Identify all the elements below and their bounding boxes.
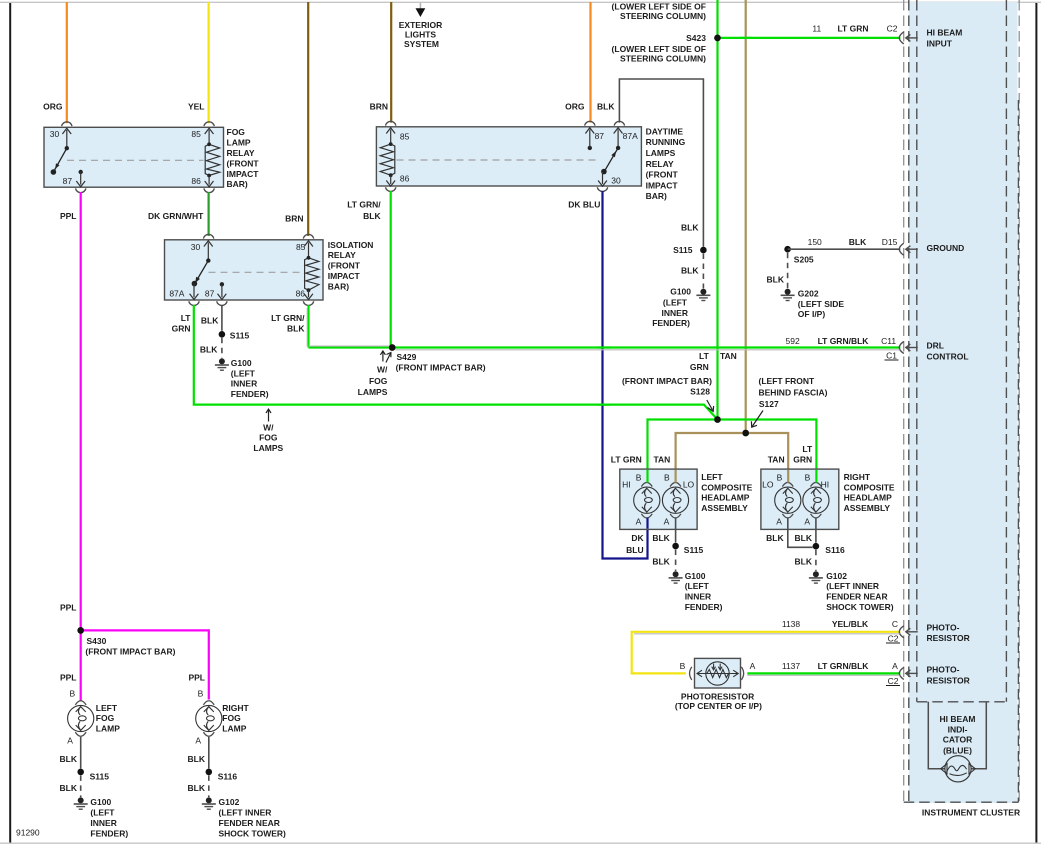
svg-text:1138: 1138 <box>782 619 801 629</box>
svg-text:GRN: GRN <box>690 362 709 372</box>
DRL relay connector arcs top <box>386 121 625 125</box>
splice S430 (front impact bar) <box>77 627 175 656</box>
svg-text:CATOR: CATOR <box>943 735 972 745</box>
wire BLK right fog lamp to S116 <box>188 737 209 769</box>
left fog lamp <box>67 689 120 746</box>
splice S429 (front impact bar) <box>389 344 486 372</box>
wire BLK dashed to G102 <box>188 775 209 797</box>
isolation relay pin 87A <box>169 284 198 300</box>
wire TAN from top to S127 <box>745 0 747 433</box>
svg-text:86: 86 <box>191 176 201 186</box>
svg-text:FOG: FOG <box>222 713 241 723</box>
connector C2 HI BEAM INPUT <box>899 27 962 48</box>
instrument cluster outer dashed border (dark) <box>904 0 1019 802</box>
svg-text:INNER: INNER <box>231 379 257 389</box>
svg-text:FOG: FOG <box>227 127 246 137</box>
svg-text:(LEFT: (LEFT <box>685 581 710 591</box>
svg-text:BLK: BLK <box>60 754 78 764</box>
ground G100 (left inner fender) <box>652 287 710 329</box>
svg-text:G100: G100 <box>231 358 252 368</box>
svg-text:A: A <box>892 661 898 671</box>
isolation relay pin 87 <box>205 282 226 299</box>
svg-text:B: B <box>680 661 686 671</box>
svg-text:B: B <box>70 689 76 699</box>
svg-text:(LEFT FRONT: (LEFT FRONT <box>759 376 816 386</box>
svg-text:B: B <box>777 473 783 483</box>
svg-text:S115: S115 <box>90 771 110 781</box>
svg-text:BAR): BAR) <box>328 281 349 291</box>
svg-text:BLK: BLK <box>681 223 699 233</box>
svg-text:LT: LT <box>802 444 813 454</box>
svg-text:RUNNING: RUNNING <box>646 137 686 147</box>
svg-text:FENDER): FENDER) <box>231 389 269 399</box>
splice S115 (fog lamp) <box>77 769 109 782</box>
instrument cluster outer dashed border (light) <box>904 0 1020 803</box>
wire BLK right headlamp HI A to S116 <box>795 518 816 543</box>
splice S430 dot <box>77 627 84 634</box>
svg-text:LT GRN: LT GRN <box>837 23 868 33</box>
svg-text:CONTROL: CONTROL <box>927 351 969 361</box>
svg-text:LAMPS: LAMPS <box>646 148 676 158</box>
DRL relay pin 87 <box>585 128 604 150</box>
svg-text:A: A <box>195 735 201 745</box>
svg-text:BLK: BLK <box>681 266 699 276</box>
arrow w/fog lamps (bottom green line) <box>253 409 283 453</box>
svg-text:HI: HI <box>622 480 631 490</box>
svg-text:C1: C1 <box>886 350 897 360</box>
svg-text:BAR): BAR) <box>646 191 667 201</box>
HI BEAM indicator leads <box>928 702 986 769</box>
svg-text:S429: S429 <box>397 352 417 362</box>
isolation relay pin 30 <box>191 241 213 261</box>
svg-text:A: A <box>804 516 810 526</box>
svg-text:S423: S423 <box>686 33 706 43</box>
splice S127 (left front behind fascia) <box>742 376 827 436</box>
splice S115 (left inner fender branch) <box>219 330 250 340</box>
svg-text:TAN: TAN <box>768 454 785 464</box>
splice S116 (headlamp) <box>813 543 845 555</box>
svg-text:RELAY: RELAY <box>227 148 255 158</box>
wire LT GRN from isolation relay 87A down and across to S128 <box>172 305 718 420</box>
left composite headlamp assembly box <box>620 469 697 529</box>
wire LT GRN/BLK horizontal to instrument cluster DRL CONTROL <box>309 336 901 361</box>
svg-text:IMPACT: IMPACT <box>646 180 679 190</box>
svg-text:PPL: PPL <box>60 603 77 613</box>
fog relay pin 87 <box>63 170 85 187</box>
splice S128 (front impact bar) <box>622 351 737 423</box>
svg-text:HI BEAM: HI BEAM <box>927 27 963 37</box>
DRL relay dashed armature line <box>397 159 600 161</box>
svg-text:BRN: BRN <box>370 102 388 112</box>
svg-text:DRL: DRL <box>927 340 944 350</box>
wire BLK right headlamp LO A to S116 <box>766 518 812 547</box>
svg-text:RIGHT: RIGHT <box>844 472 871 482</box>
connector D15 GROUND <box>899 243 964 255</box>
BLK stripe shadows on two-tone wires <box>307 308 899 675</box>
svg-text:S115: S115 <box>673 245 693 255</box>
DRL relay pin 85 and coil <box>380 128 409 177</box>
svg-text:30: 30 <box>191 242 201 252</box>
svg-text:YEL/BLK: YEL/BLK <box>832 619 869 629</box>
wire DK GRN/WHT from fog relay 86 to isolation relay 30 <box>148 192 209 236</box>
svg-text:S128: S128 <box>690 387 710 397</box>
connector C1 DRL CONTROL <box>899 340 968 361</box>
svg-text:85: 85 <box>191 129 201 139</box>
svg-text:INNER: INNER <box>662 308 688 318</box>
svg-text:FENDER): FENDER) <box>652 318 690 328</box>
isolation relay connector arcs bottom <box>189 301 314 305</box>
HI BEAM indicator lamp <box>941 756 976 782</box>
svg-text:592: 592 <box>786 336 800 346</box>
ground G100 (left inner fender) <box>669 571 723 612</box>
svg-text:BLK: BLK <box>363 211 381 221</box>
wire LT GRN from S423 down to S128 <box>716 0 718 420</box>
svg-text:S205: S205 <box>794 255 814 265</box>
svg-text:(FRONT: (FRONT <box>328 261 361 271</box>
fog relay dashed armature line <box>67 159 204 161</box>
svg-text:LT GRN/: LT GRN/ <box>271 313 305 323</box>
svg-text:BLK: BLK <box>200 345 218 355</box>
splice S429 dot <box>389 344 396 351</box>
svg-text:(TOP CENTER OF I/P): (TOP CENTER OF I/P) <box>675 701 762 711</box>
svg-text:BRN: BRN <box>285 214 303 224</box>
svg-text:(BLUE): (BLUE) <box>943 745 972 755</box>
svg-text:150: 150 <box>808 237 822 247</box>
svg-text:PHOTO-: PHOTO- <box>927 622 960 632</box>
svg-text:LT GRN/BLK: LT GRN/BLK <box>818 661 870 671</box>
svg-text:BLU: BLU <box>626 545 643 555</box>
wire BLK dashed to G100 <box>60 775 81 797</box>
svg-text:DK: DK <box>631 533 644 543</box>
svg-text:SYSTEM: SYSTEM <box>404 39 439 49</box>
fog relay pin 86 <box>191 176 213 187</box>
wire BLK dashed to G100 <box>681 254 703 289</box>
svg-text:LT GRN/BLK: LT GRN/BLK <box>818 336 870 346</box>
svg-text:INSTRUMENT CLUSTER: INSTRUMENT CLUSTER <box>922 808 1020 818</box>
svg-text:BLK: BLK <box>767 275 785 285</box>
splice S116 (fog lamp) <box>206 769 238 782</box>
svg-text:RELAY: RELAY <box>328 250 356 260</box>
svg-text:(LEFT INNER: (LEFT INNER <box>826 581 879 591</box>
svg-text:COMPOSITE: COMPOSITE <box>844 482 895 492</box>
splice S423 (lower left side of steering column) <box>612 2 721 64</box>
svg-text:COMPOSITE: COMPOSITE <box>701 482 752 492</box>
ground G100 (left inner fender) <box>74 797 129 838</box>
splice dot overlays <box>77 35 749 634</box>
svg-text:DAYTIME: DAYTIME <box>646 126 684 136</box>
svg-text:ASSEMBLY: ASSEMBLY <box>844 503 891 513</box>
svg-text:LIGHTS: LIGHTS <box>405 30 436 40</box>
svg-text:(LEFT: (LEFT <box>663 297 688 307</box>
svg-text:B: B <box>805 473 811 483</box>
wire PPL from fog relay 87 to S430 and left fog lamp <box>60 192 81 701</box>
fog relay pin 30 <box>50 128 71 148</box>
wire BLK left headlamp LO A to S115 <box>652 518 675 543</box>
svg-text:1137: 1137 <box>782 661 801 671</box>
fog relay switch <box>51 146 69 175</box>
splice S205 with ground line to cluster <box>784 237 900 264</box>
svg-text:RESISTOR: RESISTOR <box>927 675 970 685</box>
relay DAYTIME RUNNING LAMPS RELAY box <box>376 127 641 186</box>
splice S128 dot <box>714 416 721 423</box>
svg-text:IMPACT: IMPACT <box>328 271 361 281</box>
fog relay caption <box>227 127 260 189</box>
svg-text:SHOCK TOWER): SHOCK TOWER) <box>219 828 287 838</box>
wire YEL/BLK photoresistor to cluster <box>632 619 901 674</box>
svg-text:B: B <box>636 473 642 483</box>
svg-text:BAR): BAR) <box>227 179 248 189</box>
svg-text:G202: G202 <box>798 288 819 298</box>
svg-text:S116: S116 <box>825 545 845 555</box>
svg-text:87: 87 <box>595 131 605 141</box>
svg-text:HEADLAMP: HEADLAMP <box>844 493 892 503</box>
svg-text:LAMP: LAMP <box>96 724 120 734</box>
off-page arrow EXTERIOR LIGHTS SYSTEM <box>399 3 442 49</box>
right headlamp caption <box>844 472 895 513</box>
svg-text:(FRONT: (FRONT <box>646 170 679 180</box>
svg-text:ASSEMBLY: ASSEMBLY <box>701 503 748 513</box>
svg-text:BLK: BLK <box>201 315 219 325</box>
svg-text:BLK: BLK <box>60 783 78 793</box>
svg-text:A: A <box>636 516 642 526</box>
svg-text:FENDER): FENDER) <box>685 602 723 612</box>
svg-text:(LEFT INNER: (LEFT INNER <box>219 808 272 818</box>
wire BLK from DRL relay pin 87A up and over to S115 <box>597 79 703 247</box>
svg-text:ISOLATION: ISOLATION <box>328 240 374 250</box>
svg-text:SHOCK TOWER): SHOCK TOWER) <box>826 602 894 612</box>
wire LT GRN S128 to right headlamp HI B <box>718 420 817 483</box>
svg-text:FOG: FOG <box>259 433 278 443</box>
svg-text:A: A <box>750 661 756 671</box>
wire YEL to fog lamp relay pin 85 <box>188 2 209 123</box>
svg-text:LEFT: LEFT <box>701 472 723 482</box>
wire BRN to isolation relay pin 85 <box>285 2 308 236</box>
svg-text:FENDER): FENDER) <box>90 828 128 838</box>
svg-text:(LEFT SIDE: (LEFT SIDE <box>798 299 845 309</box>
wire LT GRN/BLK from isolation relay 86 down to DRL control line <box>271 305 308 348</box>
isolation relay dashed armature line <box>209 271 300 273</box>
wire TAN S127 to right headlamp LO B <box>746 433 789 483</box>
svg-text:HI BEAM: HI BEAM <box>940 714 976 724</box>
svg-text:FENDER NEAR: FENDER NEAR <box>219 818 280 828</box>
svg-text:INDI-: INDI- <box>948 724 968 734</box>
wire LT GRN/BLK from DRL relay 86 down to S429 <box>347 191 390 348</box>
svg-text:PHOTO-: PHOTO- <box>927 665 960 675</box>
svg-text:C: C <box>892 619 898 629</box>
isolation relay pin 85 and coil <box>296 241 319 292</box>
svg-text:YEL: YEL <box>188 102 205 112</box>
svg-text:TAN: TAN <box>653 454 670 464</box>
svg-text:HEADLAMP: HEADLAMP <box>701 493 749 503</box>
svg-text:G102: G102 <box>826 571 847 581</box>
ground G102 (left inner fender near shock tower) <box>202 797 286 838</box>
svg-text:A: A <box>776 516 782 526</box>
svg-text:BLK: BLK <box>652 533 670 543</box>
wire BLK dashed to ground <box>200 338 222 359</box>
svg-text:INNER: INNER <box>90 818 116 828</box>
svg-text:87A: 87A <box>623 131 638 141</box>
wire LT GRN S128 to left headlamp HI B <box>611 420 718 483</box>
svg-text:OF I/P): OF I/P) <box>798 309 826 319</box>
fog relay connector arcs bottom <box>76 188 215 192</box>
svg-text:S127: S127 <box>759 399 779 409</box>
svg-text:BLK: BLK <box>188 754 206 764</box>
wire TAN S127 to left headlamp LO B <box>653 433 745 483</box>
splice S115 (headlamp) <box>672 543 703 555</box>
wire BLK dashed to G102 <box>795 550 816 571</box>
svg-text:G100: G100 <box>670 287 691 297</box>
DRL relay pin 87A and switch <box>601 128 638 175</box>
svg-text:RIGHT: RIGHT <box>222 703 249 713</box>
svg-text:IMPACT: IMPACT <box>227 169 260 179</box>
svg-text:RELAY: RELAY <box>646 159 674 169</box>
right headlamp LO bulb <box>762 473 801 527</box>
svg-text:B: B <box>198 689 204 699</box>
svg-text:W/: W/ <box>377 365 388 375</box>
svg-text:BLK: BLK <box>652 557 670 567</box>
svg-text:B: B <box>664 473 670 483</box>
fog relay connector arcs top <box>62 122 215 126</box>
DRL relay pin 30 <box>598 172 621 187</box>
svg-text:LEFT: LEFT <box>96 703 118 713</box>
svg-text:87: 87 <box>205 288 215 298</box>
svg-text:LT GRN: LT GRN <box>611 454 642 464</box>
wire BLK from isolation relay 87 to S115 <box>201 305 222 331</box>
arrows w/fog lamps at S429 <box>358 351 391 397</box>
svg-text:INNER: INNER <box>685 592 711 602</box>
wire ORG to fog lamp relay pin 30 <box>43 2 67 123</box>
svg-text:ORG: ORG <box>565 102 585 112</box>
svg-text:87: 87 <box>63 176 73 186</box>
isolation relay switch <box>192 258 211 286</box>
svg-text:86: 86 <box>400 174 410 184</box>
svg-text:G102: G102 <box>219 797 240 807</box>
connector C2 PHOTO-RESISTOR (C) <box>899 622 969 643</box>
wire BRN to daytime running lamps relay pin 85 <box>370 2 392 123</box>
svg-text:DK BLU: DK BLU <box>568 200 600 210</box>
wire BLK dashed to G100 <box>652 550 675 572</box>
svg-text:S430: S430 <box>87 636 107 646</box>
svg-text:(LEFT: (LEFT <box>231 368 256 378</box>
svg-text:FOG: FOG <box>369 376 388 386</box>
svg-text:C2: C2 <box>887 23 898 33</box>
photoresistor component <box>675 658 762 711</box>
wire ORG to daytime running lamps relay pin 87 <box>565 2 590 123</box>
svg-text:S115: S115 <box>684 545 704 555</box>
svg-text:S115: S115 <box>230 330 250 340</box>
ground G202 (left side of I/P) <box>781 288 845 319</box>
svg-text:EXTERIOR: EXTERIOR <box>399 20 442 30</box>
svg-text:85: 85 <box>400 131 410 141</box>
svg-text:FENDER NEAR: FENDER NEAR <box>826 592 887 602</box>
svg-text:G100: G100 <box>90 797 111 807</box>
svg-text:(FRONT IMPACT BAR): (FRONT IMPACT BAR) <box>85 646 175 656</box>
svg-text:(FRONT: (FRONT <box>227 158 260 168</box>
svg-text:11: 11 <box>812 23 821 33</box>
svg-text:(FRONT IMPACT BAR): (FRONT IMPACT BAR) <box>622 376 712 386</box>
svg-text:LAMPS: LAMPS <box>358 387 388 397</box>
wire BLK dashed S205 to G202 <box>767 253 788 289</box>
svg-text:LO: LO <box>762 480 774 490</box>
wire PPL branch S430 to right fog lamp <box>81 630 209 699</box>
svg-text:BLK: BLK <box>597 102 615 112</box>
wire LT GRN/BLK photoresistor to cluster <box>747 661 900 686</box>
svg-text:GRN: GRN <box>172 323 191 333</box>
svg-text:GROUND: GROUND <box>927 243 965 253</box>
isolation relay caption <box>328 240 374 292</box>
DRL relay caption <box>646 126 686 201</box>
svg-text:BLK: BLK <box>795 557 813 567</box>
splice S127 dot <box>742 430 749 437</box>
svg-text:85: 85 <box>296 242 306 252</box>
instrument cluster panel fill <box>909 2 1018 803</box>
svg-text:87A: 87A <box>169 288 184 298</box>
svg-text:LT: LT <box>699 351 710 361</box>
svg-text:PPL: PPL <box>60 672 77 682</box>
svg-text:LT: LT <box>181 313 192 323</box>
svg-text:BLK: BLK <box>766 533 784 543</box>
right fog lamp <box>195 689 249 746</box>
svg-text:91290: 91290 <box>16 827 40 837</box>
svg-text:STEERING COLUMN): STEERING COLUMN) <box>620 11 706 21</box>
svg-text:PHOTORESISTOR: PHOTORESISTOR <box>681 691 754 701</box>
left headlamp HI bulb <box>622 473 660 527</box>
svg-text:PPL: PPL <box>60 211 77 221</box>
svg-text:RESISTOR: RESISTOR <box>927 633 970 643</box>
svg-text:BLK: BLK <box>287 323 305 333</box>
right composite headlamp assembly box <box>761 469 839 529</box>
svg-text:BEHIND FASCIA): BEHIND FASCIA) <box>759 388 828 398</box>
svg-text:LAMP: LAMP <box>227 138 251 148</box>
svg-text:FOG: FOG <box>96 713 115 723</box>
svg-text:LT GRN/: LT GRN/ <box>347 200 381 210</box>
right headlamp HI bulb <box>803 473 829 527</box>
ground G102 (left inner fender near shock tower) <box>809 571 894 612</box>
svg-text:DK GRN/WHT: DK GRN/WHT <box>148 211 204 221</box>
svg-text:C2: C2 <box>888 633 899 643</box>
svg-text:(FRONT IMPACT BAR): (FRONT IMPACT BAR) <box>396 363 486 373</box>
svg-text:BLK: BLK <box>188 783 206 793</box>
svg-text:A: A <box>67 735 73 745</box>
svg-text:C2: C2 <box>888 676 899 686</box>
wire DK BLU from DRL relay 30 to left headlamp HI A <box>568 191 647 559</box>
left headlamp LO bulb <box>662 473 694 527</box>
wire stubs inside headlamp boxes <box>648 470 817 529</box>
isolation relay connector arcs top <box>203 234 313 238</box>
relay FOG LAMP RELAY box <box>44 127 224 187</box>
svg-text:STEERING COLUMN): STEERING COLUMN) <box>620 53 706 63</box>
svg-text:LAMP: LAMP <box>222 724 246 734</box>
svg-text:ORG: ORG <box>43 102 63 112</box>
svg-text:A: A <box>664 516 670 526</box>
relay ISOLATION RELAY box <box>165 240 324 300</box>
svg-text:HI: HI <box>821 480 830 490</box>
splice S423 dot <box>714 35 721 42</box>
svg-text:(LEFT: (LEFT <box>90 808 115 818</box>
svg-text:S116: S116 <box>218 771 238 781</box>
DRL relay connector arcs bottom <box>386 187 608 191</box>
isolation relay pin 86 <box>296 289 313 300</box>
DRL relay pin 86 <box>386 174 409 187</box>
svg-text:30: 30 <box>50 129 60 139</box>
connector C2 PHOTO-RESISTOR (A) <box>899 665 969 686</box>
svg-text:PPL: PPL <box>188 672 205 682</box>
svg-text:BLK: BLK <box>849 237 867 247</box>
svg-text:LAMPS: LAMPS <box>253 443 283 453</box>
svg-text:30: 30 <box>611 176 621 186</box>
splice S115 (steering column branch) <box>673 245 707 255</box>
wire LT GRN S423 to instrument cluster HI BEAM INPUT <box>718 23 901 38</box>
